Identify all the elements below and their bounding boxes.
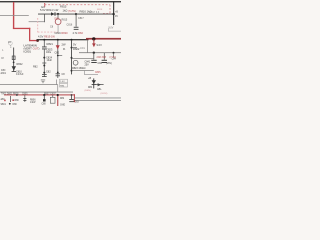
svg-text:R807 C807: R807 C807 xyxy=(44,93,56,95)
svg-text:R80: R80 xyxy=(15,100,20,102)
svg-text:R823 150kΩ: R823 150kΩ xyxy=(72,67,86,70)
svg-text:&801: &801 xyxy=(1,72,7,75)
svg-text:C84: C84 xyxy=(98,62,103,65)
svg-text:ABL: ABL xyxy=(97,88,102,91)
svg-text:R817 3.3: R817 3.3 xyxy=(90,11,100,14)
svg-text:1kΩ: 1kΩ xyxy=(63,9,68,13)
svg-text:2C8 3C8: 2C8 3C8 xyxy=(97,56,107,59)
svg-text:R818: R818 xyxy=(97,9,103,11)
svg-text:5V: 5V xyxy=(73,43,76,47)
svg-text:R822: R822 xyxy=(73,47,80,51)
svg-text:GND: GND xyxy=(60,104,65,106)
svg-text:1/2W: 1/2W xyxy=(30,102,36,104)
svg-text:&80: &80 xyxy=(1,99,6,101)
svg-text:(180V): (180V) xyxy=(85,90,92,92)
svg-text:9V: 9V xyxy=(115,15,118,18)
svg-text:C805: C805 xyxy=(22,93,28,95)
svg-text:9.0V: 9.0V xyxy=(109,28,114,30)
svg-text:R821: R821 xyxy=(47,42,54,46)
svg-text:(24.5V): (24.5V) xyxy=(101,93,108,95)
svg-text:+B: +B xyxy=(115,10,118,13)
svg-text:C82: C82 xyxy=(46,70,51,73)
svg-text:9.0V: 9.0V xyxy=(97,43,103,47)
svg-text:C823: C823 xyxy=(46,48,53,52)
svg-text:C83: C83 xyxy=(75,102,80,104)
svg-text:0.47uF: 0.47uF xyxy=(16,73,24,76)
svg-text:4.7k R82: 4.7k R82 xyxy=(73,31,84,35)
svg-text:1.6V: 1.6V xyxy=(60,81,65,83)
svg-text:T801 D801 R805: T801 D801 R805 xyxy=(1,93,19,95)
svg-text:100u: 100u xyxy=(46,52,52,54)
svg-text:R82: R82 xyxy=(33,65,38,68)
svg-text:C817: C817 xyxy=(78,17,84,20)
svg-text:S801: S801 xyxy=(1,104,7,106)
svg-text:R802: R802 xyxy=(17,63,24,66)
svg-text:100n: 100n xyxy=(80,48,86,50)
svg-text:R815: R815 xyxy=(62,18,68,21)
svg-text:(74.5V): (74.5V) xyxy=(68,10,76,13)
svg-text:2.: 2. xyxy=(10,45,12,48)
svg-text:4.5V R819 1W: 4.5V R819 1W xyxy=(38,35,55,39)
svg-text:D81: D81 xyxy=(55,18,60,20)
svg-text:5.6V R814 ¼W: 5.6V R814 ¼W xyxy=(40,8,59,12)
svg-text:C845: C845 xyxy=(95,72,101,74)
svg-text:(16V): (16V) xyxy=(106,62,112,65)
svg-text:(7.0V): (7.0V) xyxy=(110,56,117,59)
svg-text:10uF: 10uF xyxy=(47,59,53,62)
svg-text:D80: D80 xyxy=(13,104,18,106)
svg-text:+B: +B xyxy=(88,77,91,80)
svg-text:R815: R815 xyxy=(60,5,67,9)
svg-text:C82: C82 xyxy=(55,52,60,55)
svg-text:IC801: IC801 xyxy=(24,49,32,53)
svg-text:R82: R82 xyxy=(60,98,65,100)
svg-text:R.: R. xyxy=(63,47,66,51)
svg-text:C816: C816 xyxy=(67,24,73,27)
svg-text:2W: 2W xyxy=(62,43,66,47)
svg-text:C816 R820: C816 R820 xyxy=(55,31,69,35)
svg-text:C80: C80 xyxy=(42,104,47,106)
